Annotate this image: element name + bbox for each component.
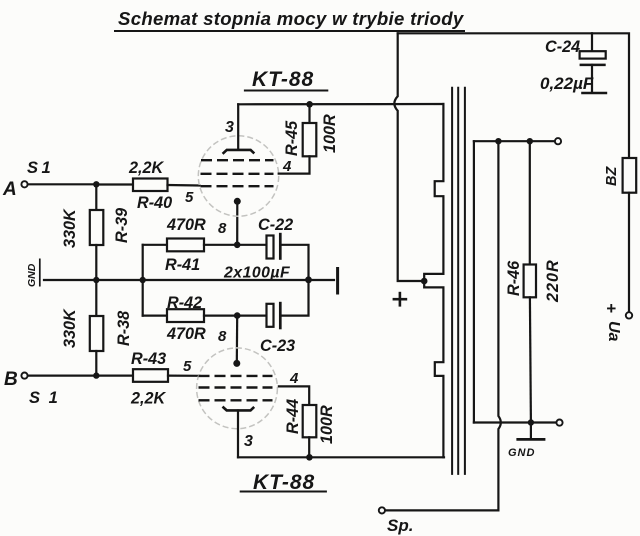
svg-text:8: 8 (218, 220, 227, 237)
svg-text:C-22: C-22 (258, 216, 293, 234)
terminal +Ua (626, 312, 632, 318)
svg-text:0,22µF: 0,22µF (540, 74, 594, 93)
label KT-88 (bottom tube) (240, 471, 327, 494)
svg-text:B: B (4, 369, 18, 390)
transformer T1 secondary winding (473, 141, 475, 422)
svg-text:R-44: R-44 (284, 399, 302, 434)
capacitor C-23 plate 2 (279, 302, 282, 330)
wire R-46 lower lead (530, 297, 531, 422)
label KT-88 (top tube) (244, 68, 328, 91)
wire R-38 to node B (95, 351, 97, 376)
wire cathode pin 8 bottom tube (236, 316, 239, 364)
svg-text:R-40: R-40 (137, 194, 172, 212)
resistor R-40 (133, 179, 168, 192)
transformer T1 primary lower half (424, 281, 443, 457)
terminal B (21, 373, 27, 379)
capacitor C-24 plate (580, 51, 606, 58)
capacitor C-22 plate 2 (279, 233, 282, 260)
junction R-46 bottom (528, 419, 534, 425)
junction center tap (421, 278, 428, 285)
svg-text:5: 5 (185, 189, 194, 206)
wire junction to R-40 (96, 183, 133, 185)
svg-text:4: 4 (289, 370, 299, 387)
resistor R-42 (167, 309, 204, 322)
resistor R-39 (90, 210, 104, 245)
gnd label underline (39, 259, 41, 287)
tube V1 envelope (top KT-88) (198, 136, 278, 216)
svg-text:R-43: R-43 (131, 350, 166, 368)
tube V2 envelope (bottom KT-88) (197, 348, 278, 429)
cathode dot top tube (234, 198, 241, 205)
wire anode rail top (238, 103, 443, 106)
cathode dot bottom tube (233, 360, 240, 367)
svg-text:S 1: S 1 (29, 389, 60, 407)
svg-text:R-38: R-38 (115, 311, 133, 346)
wire R-40 to tube pin 5 (168, 184, 200, 187)
wire B+ top rail (398, 33, 629, 158)
junction R-46 top (527, 138, 533, 144)
svg-text:C-24: C-24 (545, 38, 580, 56)
junction (93, 372, 99, 378)
plus mark at center tap (393, 292, 408, 307)
svg-text:100R: 100R (318, 405, 336, 444)
svg-text:GND: GND (508, 447, 535, 459)
svg-text:2,2K: 2,2K (130, 390, 167, 408)
svg-text:220R: 220R (544, 259, 562, 303)
svg-text:Sp.: Sp. (387, 516, 413, 535)
svg-text:8: 8 (218, 328, 227, 345)
svg-text:470R: 470R (166, 325, 206, 343)
svg-text:R-39: R-39 (113, 208, 131, 243)
terminal secondary top (555, 138, 561, 144)
junction pin8 top (234, 242, 241, 249)
wire to R-45 (308, 104, 310, 123)
wire A to junction (28, 183, 96, 185)
wire to R-42 (143, 315, 167, 317)
svg-text:Ua: Ua (605, 321, 622, 342)
wire anode pin 3 bottom (237, 410, 239, 457)
wire R-43 to tube pin 5 (168, 375, 199, 377)
svg-text:KT-88: KT-88 (252, 68, 314, 91)
ground symbol (secondary) (516, 423, 545, 440)
junction pin8 bottom (234, 312, 241, 319)
svg-text:3: 3 (244, 433, 253, 450)
wire gnd bus (44, 279, 334, 281)
gnd bus end bar (336, 267, 339, 295)
wire anode rail bottom (238, 456, 444, 458)
svg-text:R-42: R-42 (167, 294, 202, 312)
terminal Sp (379, 507, 385, 513)
wire R-45 to pin 4 (279, 156, 310, 173)
resistor R-43 (133, 369, 168, 382)
wire R-41 to C-22 (204, 244, 266, 246)
tube V1 anode plate (223, 150, 255, 154)
svg-text:+: + (606, 299, 616, 318)
svg-text:5: 5 (183, 358, 192, 375)
wire junction A to R-39 (95, 184, 97, 210)
resistor BZ (623, 158, 637, 193)
svg-text:BZ: BZ (604, 166, 620, 186)
wire cathode pin 8 top tube (236, 201, 238, 245)
wire C-22 to riser (282, 245, 309, 280)
svg-text:R-41: R-41 (165, 256, 200, 274)
resistor R-45 (303, 123, 317, 156)
junction (140, 277, 146, 283)
junction R-44 (306, 454, 313, 461)
capacitor C-24 plate 2 (580, 64, 606, 67)
svg-text:4: 4 (282, 158, 292, 175)
svg-text:330K: 330K (61, 208, 79, 248)
svg-text:GND: GND (26, 263, 38, 287)
transformer T1 core (452, 87, 465, 475)
svg-text:S1: S1 (27, 159, 54, 177)
svg-text:Schemat stopnia mocy w trybie: Schemat stopnia mocy w trybie triody (118, 8, 465, 29)
terminal secondary bottom (556, 420, 562, 426)
wire R-44 to anode rail (308, 437, 310, 457)
wire R-46 upper lead (529, 141, 531, 264)
transformer T1 primary winding (424, 104, 443, 281)
wire C-23 to riser (282, 280, 309, 316)
svg-text:2,2K: 2,2K (128, 159, 165, 177)
junction R-45 (306, 101, 313, 108)
wire pin 4 to R-44 (279, 386, 309, 405)
wire to R-41 (143, 244, 167, 246)
wire BZ to Ua terminal (628, 193, 630, 313)
wire secondary bottom (474, 421, 556, 423)
svg-text:R-45: R-45 (283, 120, 301, 156)
junction sp tap (495, 138, 501, 144)
junction (93, 181, 99, 187)
wire B to junction (28, 375, 133, 377)
wire R-42 to C-23 (204, 315, 266, 317)
title: Schemat stopnia mocy w trybie triody (114, 8, 465, 31)
tube V1 grid dashes (201, 160, 274, 186)
wire secondary top (474, 140, 555, 142)
svg-text:100R: 100R (321, 114, 339, 153)
tube V2 anode plate (223, 407, 255, 411)
wire C-24 bottom lead (591, 65, 593, 93)
resistor R-41 (167, 239, 204, 252)
wire cathode bus vertical (142, 245, 144, 316)
wire center tap feed with hop (394, 33, 424, 281)
terminal A (21, 181, 27, 187)
svg-text:2x100µF: 2x100µF (223, 265, 290, 282)
svg-text:330K: 330K (61, 308, 79, 348)
C-24 end bar (581, 92, 607, 95)
svg-text:470R: 470R (166, 216, 206, 234)
resistor R-46 (524, 265, 536, 298)
svg-text:3: 3 (225, 119, 234, 136)
svg-text:A: A (2, 179, 17, 200)
tube V2 grid dashes (199, 376, 273, 400)
wire gnd bus to R-38 (95, 280, 97, 316)
svg-text:R-46: R-46 (505, 260, 523, 296)
capacitor C-23 plate (267, 304, 274, 327)
capacitor C-22 plate (267, 236, 274, 259)
resistor R-38 (90, 316, 104, 351)
svg-text:C-23: C-23 (260, 337, 295, 355)
junction (93, 277, 99, 283)
wire Sp tap with hop (385, 141, 501, 510)
wire anode pin 3 top (237, 104, 239, 150)
wire C-24 top lead (591, 33, 593, 51)
resistor R-44 (303, 405, 317, 437)
junction (305, 276, 312, 283)
wire R-39 to gnd bus (95, 245, 97, 280)
